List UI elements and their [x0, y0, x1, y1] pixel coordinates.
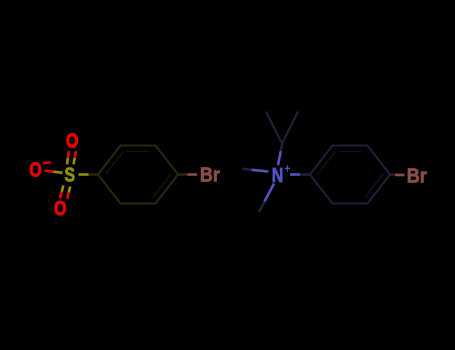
oxygen atom O (top) [66, 130, 78, 152]
svg-text:O: O [29, 159, 41, 181]
S-C bond (carbon half) [89, 173, 99, 176]
oxygen atom O (bottom) [54, 197, 66, 219]
N-C(ring) bond (carbon half) [300, 173, 310, 176]
N-CH3 bond lower-left (carbon half) [259, 202, 265, 213]
svg-text:N: N [272, 164, 284, 186]
C-Br bond (bromine half, right molecule) [395, 174, 405, 177]
oxygen atom O- (left) [29, 159, 41, 181]
N-CH bond up (blue half) [278, 151, 281, 165]
S-C bond (olive half) [79, 173, 89, 176]
N-C(ring) bond (blue half) [290, 173, 300, 176]
N-CH3 bond left (carbon half) [242, 169, 252, 170]
C-Br bond (carbon half, left molecule) [178, 173, 188, 176]
CH(CH3)2 right methyl bond [282, 112, 298, 144]
N-CH3 bond lower-left (blue half) [265, 184, 275, 202]
S=O bottom double bond [60, 185, 70, 198]
benzene ring (left, dark olive) [98, 146, 178, 204]
aromatic inner bonds (right ring) [318, 152, 383, 198]
plus charge on N [285, 163, 291, 176]
nitrogen atom N+ [272, 164, 284, 186]
benzene ring (right, dark blue) [310, 146, 390, 204]
CH(CH3)2 left methyl bond [266, 112, 282, 144]
svg-text:Br: Br [200, 165, 221, 187]
svg-text:S: S [64, 164, 75, 186]
bromine label Br (right molecule) [407, 165, 428, 187]
N-CH bond up (carbon half) [281, 144, 283, 152]
C-Br bond (carbon half, right molecule) [390, 173, 395, 176]
svg-text:+: + [285, 163, 291, 176]
S=O top double bond [67, 151, 76, 164]
svg-text:O: O [66, 130, 78, 152]
N-CH3 bond left (blue half) [252, 170, 269, 172]
bromine label Br (left molecule) [200, 165, 221, 187]
svg-text:Br: Br [407, 165, 428, 187]
aromatic inner bonds (left ring) [106, 152, 171, 198]
svg-text:O: O [54, 197, 66, 219]
O(-)-S single bond [45, 171, 63, 173]
sulfur atom S [64, 164, 75, 186]
minus charge on O [43, 161, 51, 164]
C-Br bond (bromine half, left molecule) [188, 173, 198, 176]
